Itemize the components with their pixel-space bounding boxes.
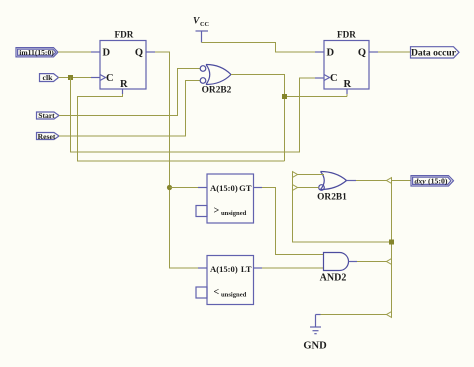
svg-text:Reset: Reset: [38, 132, 56, 141]
wire clk to C: [59, 77, 92, 79]
pin stub D (U2): [315, 51, 324, 53]
pin stub R (U1): [122, 89, 124, 94]
ground GND: [303, 315, 327, 352]
svg-text:AND2: AND2: [320, 272, 347, 283]
input port Reset: [37, 132, 60, 141]
svg-text:>: >: [214, 206, 220, 217]
junction R net node: [282, 94, 287, 99]
svg-text:A(15:0): A(15:0): [210, 264, 238, 274]
input port im11(15:0): [16, 48, 58, 57]
wire im11 to D: [58, 51, 91, 53]
svg-text:dxy: dxy: [415, 177, 427, 186]
svg-text:clk: clk: [43, 73, 54, 82]
junction clk node: [68, 75, 73, 80]
comparator GT: [196, 174, 254, 223]
svg-text:FDR: FDR: [115, 29, 134, 39]
svg-text:Q: Q: [135, 48, 143, 59]
pin stub AND2 out: [349, 261, 358, 263]
flip-flop FDR U1: [100, 29, 146, 90]
wire OR2B2 output to R pins: [231, 75, 285, 162]
junction A-bus node: [167, 185, 172, 190]
wire dxy tag: [392, 180, 412, 182]
wire AND2 out to dxy net: [357, 261, 387, 263]
svg-text:FDR: FDR: [337, 29, 356, 39]
svg-text:R: R: [120, 79, 128, 90]
svg-text:GT: GT: [239, 183, 252, 193]
or-gate OR2B2: [200, 65, 231, 96]
svg-text:im11(15:0): im11(15:0): [19, 48, 54, 57]
bus tap triangle OR2B1 in B: [293, 185, 298, 191]
wire LT to AND2 input B: [262, 267, 324, 269]
svg-text:Q: Q: [358, 48, 366, 59]
pin stub C (U2): [315, 77, 324, 79]
flip-flop FDR U2: [324, 29, 369, 90]
comparator LT: [196, 256, 254, 305]
wire to U2 R: [285, 96, 348, 98]
svg-text:CC: CC: [200, 21, 210, 28]
svg-text:Data occur: Data occur: [411, 48, 457, 59]
svg-text:A(15:0): A(15:0): [210, 183, 238, 193]
wire Q1 to comparators A: [155, 52, 198, 268]
svg-text:V: V: [193, 17, 200, 27]
pin stub Q (U2): [369, 51, 378, 53]
or-gate OR2B1: [317, 172, 347, 203]
wire tap to OR2B1 input B: [298, 187, 319, 189]
svg-text:GND: GND: [303, 341, 327, 352]
svg-text:unsigned: unsigned: [221, 210, 247, 217]
output port Data occur: [411, 47, 460, 59]
svg-text:C: C: [330, 73, 338, 84]
wire Start to OR2B2 input A: [59, 69, 200, 116]
pin stub D (U1): [91, 51, 100, 53]
input port Start: [37, 111, 60, 120]
wire GT to AND2 input A: [262, 188, 324, 255]
wire VCC to U2 D: [202, 43, 316, 53]
wire Q2 to Data occur: [378, 51, 411, 53]
wire Reset to OR2B2 input B: [59, 81, 200, 137]
svg-text:Start: Start: [38, 111, 55, 120]
pin stub Q (U1): [146, 51, 155, 53]
net dxy vertical: [391, 181, 393, 315]
bus tap triangle AND2 out: [387, 259, 392, 265]
wire U1 R net: [78, 94, 285, 161]
bus tap triangle OR2B1 out: [387, 178, 392, 184]
power VCC: [193, 17, 210, 43]
wire GND to dxy net: [321, 314, 387, 316]
pin stub R (U2): [346, 89, 348, 94]
svg-text:OR2B2: OR2B2: [202, 86, 232, 96]
pin stub OR2B1 out: [347, 180, 357, 182]
and-gate AND2: [320, 253, 349, 284]
wire OR2B1 out to dxy net: [356, 180, 387, 182]
pin stub A (LT): [198, 267, 207, 269]
wire tap feed from dxy net: [293, 172, 392, 242]
svg-text:unsigned: unsigned: [221, 292, 247, 299]
svg-text:R: R: [344, 79, 352, 90]
pin stub A (GT): [198, 187, 207, 189]
wire tap to OR2B1 input A: [298, 174, 325, 176]
bus tap triangle OR2B1 in A: [293, 172, 298, 178]
svg-text:C: C: [106, 73, 114, 84]
wire clk to U2 C: [71, 78, 316, 153]
bus tap triangle GND: [387, 312, 392, 318]
junction dxy net node: [389, 240, 394, 245]
output port dxy (15:0): [411, 176, 454, 186]
wire A-bus to GT A: [170, 187, 199, 189]
svg-text:LT: LT: [241, 264, 252, 274]
pin stub GT out: [254, 187, 263, 189]
pin stub LT out: [254, 267, 263, 269]
svg-text:<: <: [214, 287, 220, 298]
pin stub C (U1): [91, 77, 100, 79]
svg-text:D: D: [327, 48, 335, 59]
svg-text:D: D: [103, 48, 111, 59]
svg-text:OR2B1: OR2B1: [317, 193, 347, 203]
input port clk: [40, 73, 59, 82]
svg-text:(15:0): (15:0): [428, 177, 448, 186]
